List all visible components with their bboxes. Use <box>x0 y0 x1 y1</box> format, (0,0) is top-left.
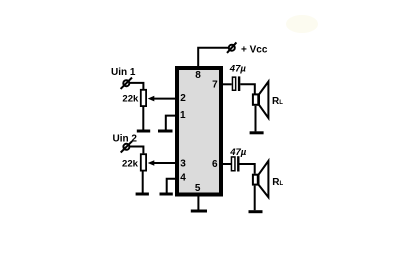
svg-text:22k: 22k <box>122 93 139 104</box>
terminal + Vcc <box>227 42 236 53</box>
ground R2 <box>136 193 149 196</box>
wire C2 to speaker 2 <box>240 164 255 174</box>
terminal Uin 2 <box>121 141 132 152</box>
svg-text:Uin 2: Uin 2 <box>113 134 138 145</box>
ground pin 1 <box>158 130 173 133</box>
speaker 2 <box>253 161 269 197</box>
ground pin 5 <box>191 210 207 213</box>
wire pin 8 to Vcc terminal <box>198 48 229 66</box>
wire speaker 2 to ground <box>254 186 256 211</box>
wire pin 6 to C2 <box>221 163 231 165</box>
wire terminal 2 to R2 <box>129 147 143 154</box>
svg-text:RL: RL <box>272 96 283 107</box>
potentiometer R1 <box>141 90 146 106</box>
R2 wiper arrow / wire to pin 3 <box>148 160 176 166</box>
wire C1 to speaker 1 <box>240 84 255 94</box>
svg-text:2: 2 <box>180 93 186 104</box>
svg-text:+ Vcc: + Vcc <box>241 44 268 55</box>
wire terminal 1 to R1 <box>129 83 143 89</box>
svg-text:6: 6 <box>212 159 218 170</box>
svg-text:5: 5 <box>195 183 201 194</box>
svg-text:47µ: 47µ <box>229 147 247 158</box>
svg-text:47µ: 47µ <box>229 64 247 75</box>
potentiometer R2 <box>141 154 146 170</box>
svg-text:RL: RL <box>272 177 283 188</box>
ground speaker 2 <box>249 210 263 213</box>
wire R2 to ground <box>142 171 144 193</box>
capacitor C1 <box>232 76 240 91</box>
IC U1 body <box>177 68 221 195</box>
wire pin 7 to C1 <box>221 83 232 85</box>
ground speaker 1 <box>250 131 264 134</box>
wire pin 1 to ground <box>166 116 176 130</box>
svg-text:7: 7 <box>212 79 218 90</box>
svg-text:3: 3 <box>180 158 186 169</box>
R1 wiper arrow / wire to pin 2 <box>148 96 176 102</box>
svg-text:8: 8 <box>195 70 201 81</box>
svg-text:1: 1 <box>180 110 186 121</box>
svg-text:22k: 22k <box>122 159 139 170</box>
wire speaker 1 to ground <box>255 106 257 132</box>
ground pin 4 <box>160 193 173 196</box>
wire R1 to ground <box>142 106 144 130</box>
svg-text:Uin 1: Uin 1 <box>111 67 136 78</box>
terminal Uin 1 <box>121 78 132 89</box>
capacitor C2 <box>231 156 239 171</box>
wire pin 4 to ground <box>167 179 176 193</box>
ground R1 <box>137 130 150 133</box>
smudge <box>286 15 318 33</box>
svg-text:4: 4 <box>180 173 186 184</box>
wire pin 5 to ground <box>197 197 199 210</box>
speaker 1 <box>253 82 269 118</box>
